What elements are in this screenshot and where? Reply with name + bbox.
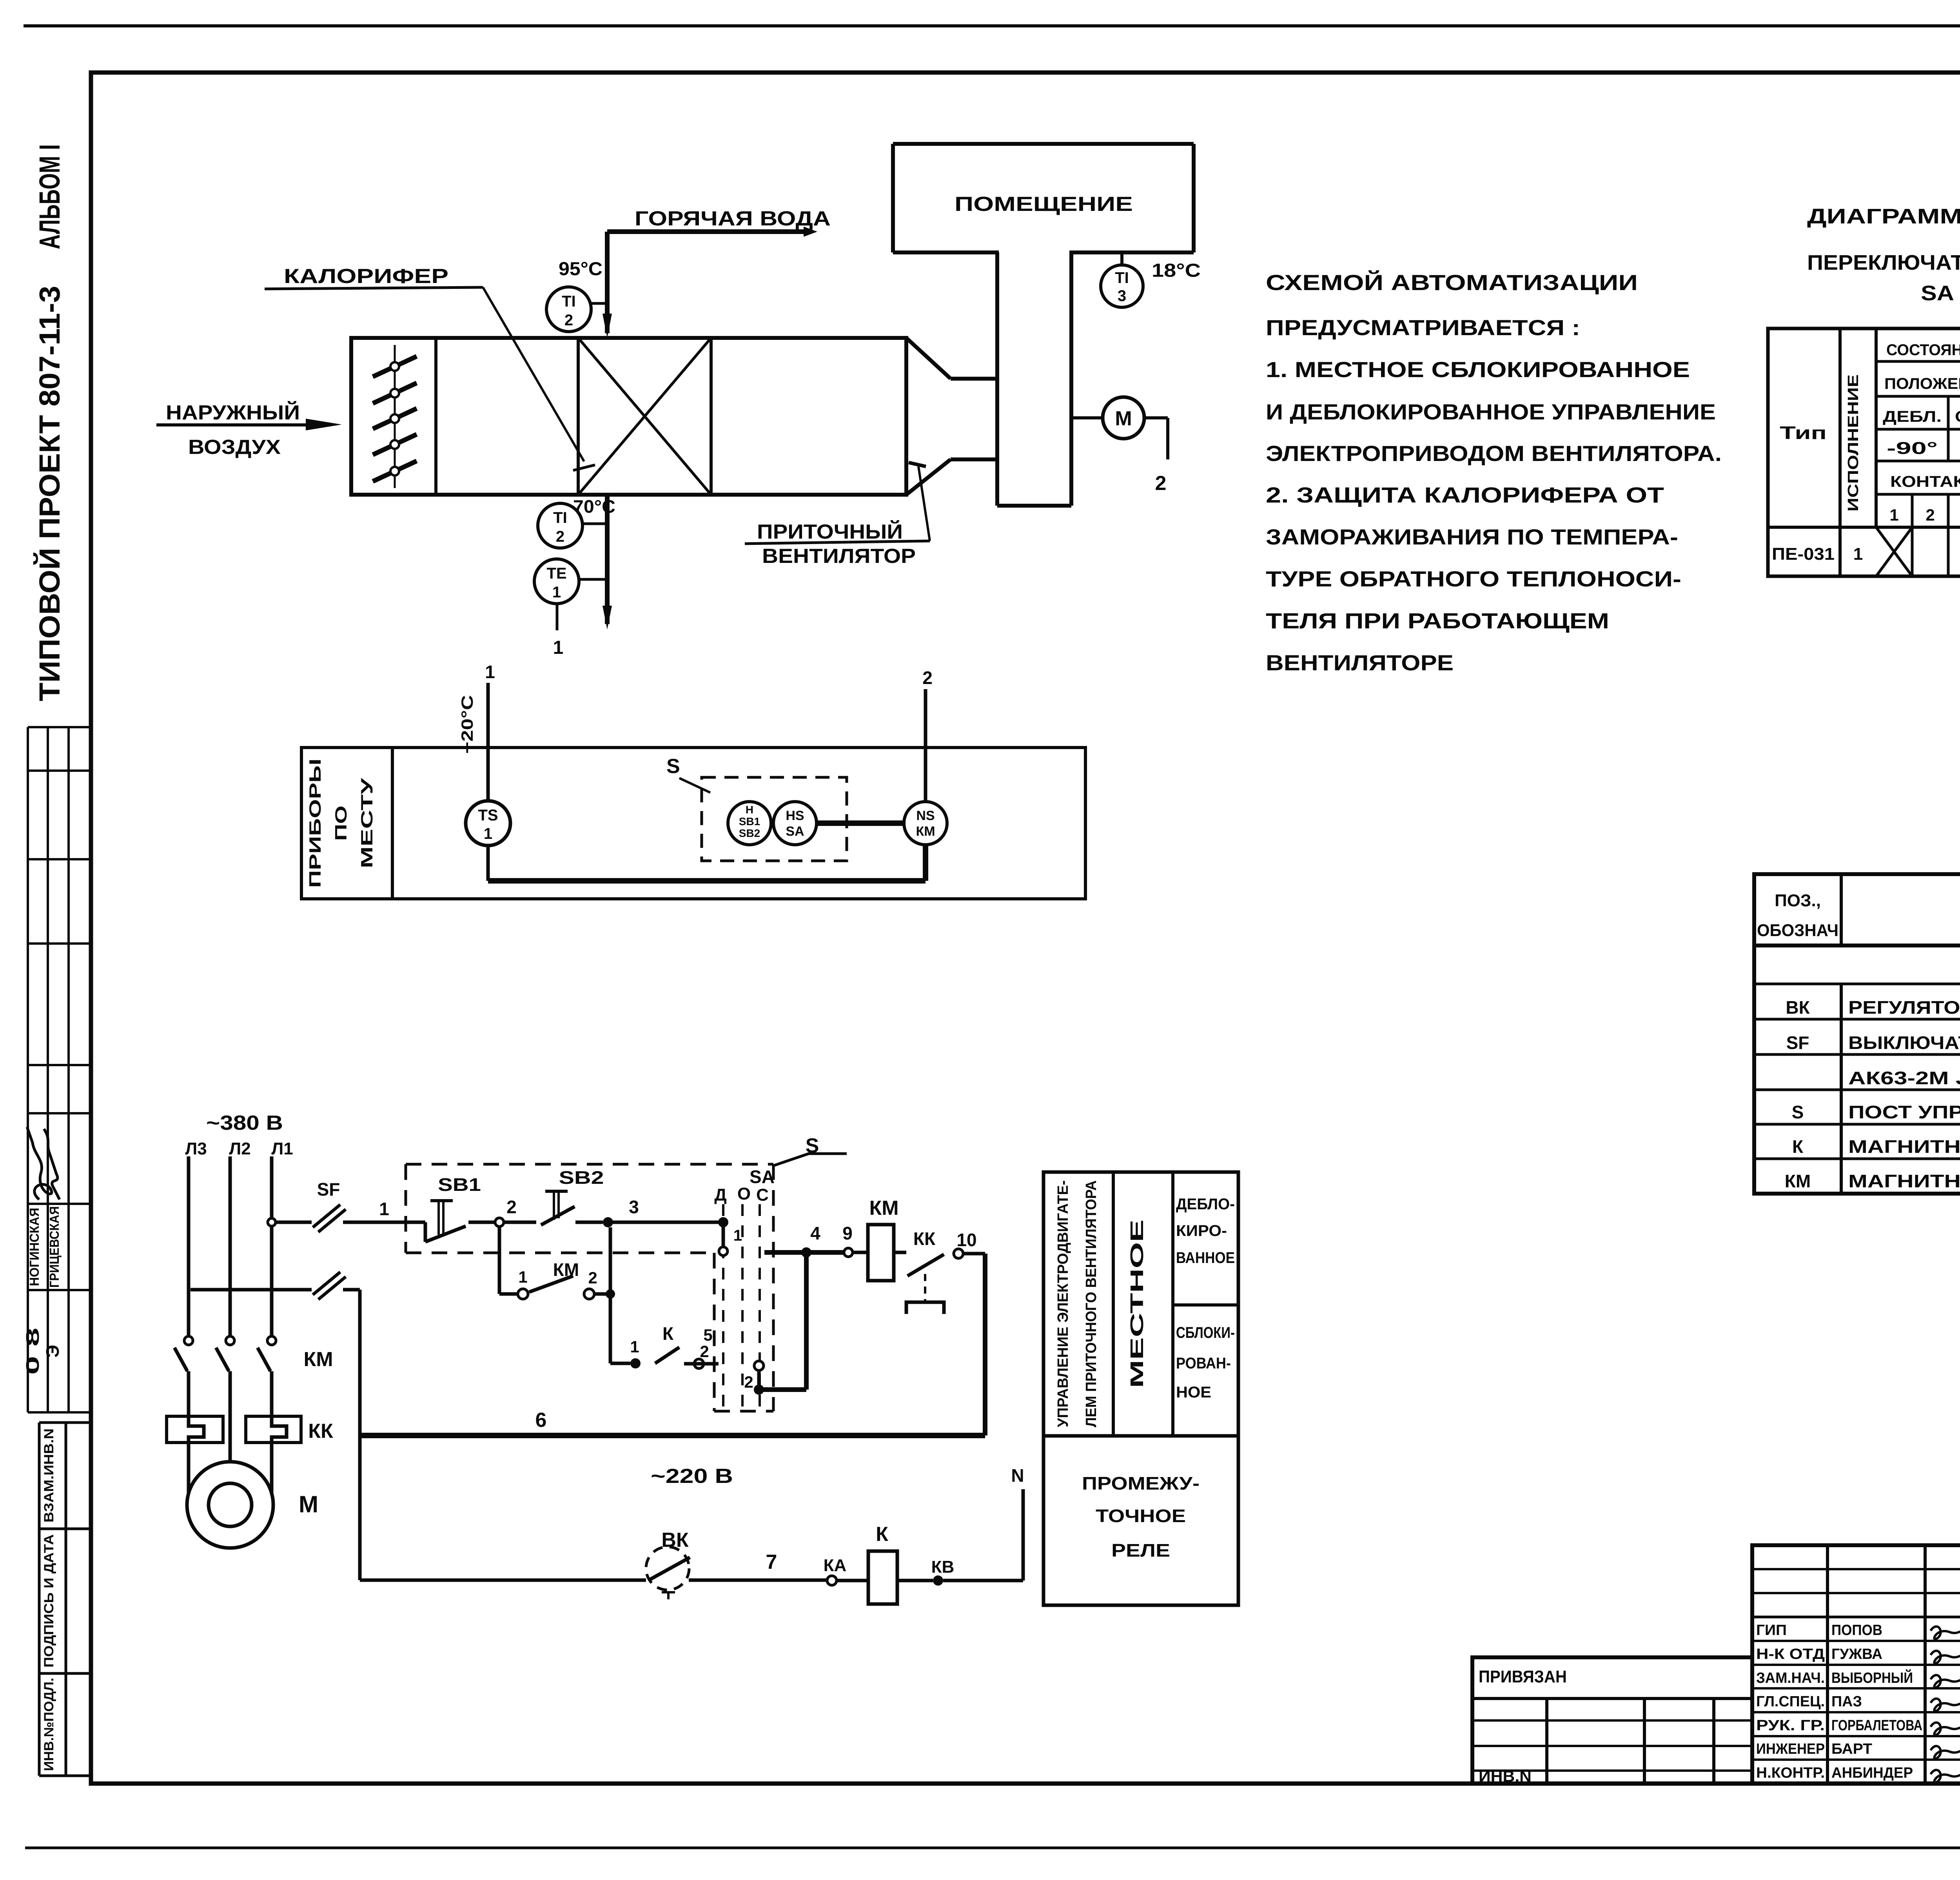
svg-text:МЕСТУ: МЕСТУ xyxy=(358,778,376,868)
svg-text:2: 2 xyxy=(506,1197,517,1217)
svg-text:3: 3 xyxy=(629,1197,639,1217)
svg-text:С: С xyxy=(756,1185,769,1205)
svg-text:К: К xyxy=(876,1523,888,1546)
svg-text:ДЕБЛ.: ДЕБЛ. xyxy=(1883,408,1942,425)
svg-text:КК: КК xyxy=(913,1229,936,1249)
svg-text:~380 В: ~380 В xyxy=(206,1112,283,1134)
svg-text:ПЕ-031: ПЕ-031 xyxy=(1772,544,1835,564)
svg-text:ГИП: ГИП xyxy=(1756,1622,1787,1639)
svg-text:ОБОЗНАЧ: ОБОЗНАЧ xyxy=(1757,921,1838,940)
svg-text:КМ: КМ xyxy=(1785,1171,1811,1191)
svg-text:0 8: 0 8 xyxy=(22,1328,43,1375)
svg-text:3: 3 xyxy=(1118,287,1126,305)
svg-text:ВЫБОРНЫЙ: ВЫБОРНЫЙ xyxy=(1831,1669,1913,1686)
svg-text:И ДЕБЛОКИРОВАННОЕ УПРАВЛЕНИЕ: И ДЕБЛОКИРОВАННОЕ УПРАВЛЕНИЕ xyxy=(1266,399,1716,424)
svg-text:АНБИНДЕР: АНБИНДЕР xyxy=(1831,1765,1913,1781)
svg-text:ПРОМЕЖУ-: ПРОМЕЖУ- xyxy=(1082,1473,1200,1493)
svg-text:Н.КОНТР.: Н.КОНТР. xyxy=(1756,1765,1825,1781)
svg-text:SA: SA xyxy=(750,1167,775,1187)
svg-text:SF: SF xyxy=(1786,1033,1809,1053)
svg-text:ПРЕДУСМАТРИВАЕТСЯ :: ПРЕДУСМАТРИВАЕТСЯ : xyxy=(1266,315,1580,340)
svg-text:О: О xyxy=(737,1184,751,1203)
svg-text:10: 10 xyxy=(956,1230,976,1250)
svg-text:1: 1 xyxy=(733,1227,742,1244)
svg-text:РОВАН-: РОВАН- xyxy=(1176,1355,1231,1372)
svg-text:К: К xyxy=(662,1323,674,1344)
svg-text:ПЕРЕКЛЮЧАТЕЛЯ: ПЕРЕКЛЮЧАТЕЛЯ xyxy=(1807,251,1960,274)
svg-text:ПРИБОРЫ: ПРИБОРЫ xyxy=(306,759,324,888)
svg-text:HS: HS xyxy=(786,808,804,823)
svg-text:АК63-2М Jнр = 0,6 А: АК63-2М Jнр = 0,6 А xyxy=(1848,1068,1960,1088)
svg-text:18°C: 18°C xyxy=(1152,260,1201,281)
svg-text:TI: TI xyxy=(562,293,576,310)
svg-text:НОЕ: НОЕ xyxy=(1176,1384,1211,1401)
svg-text:ГУЖВА: ГУЖВА xyxy=(1831,1646,1882,1662)
svg-text:M: M xyxy=(1115,407,1132,430)
svg-text:КВ: КВ xyxy=(931,1557,955,1577)
svg-text:1: 1 xyxy=(1889,506,1898,524)
svg-text:ГЛ.СПЕЦ.: ГЛ.СПЕЦ. xyxy=(1756,1693,1825,1710)
svg-text:SA: SA xyxy=(1921,281,1954,305)
svg-text:TS: TS xyxy=(478,807,498,824)
svg-text:2: 2 xyxy=(588,1268,597,1287)
svg-text:Э: Э xyxy=(42,1345,63,1358)
svg-text:5: 5 xyxy=(703,1326,712,1344)
svg-text:СОСТОЯНИЕ КОНТАКТОВ: СОСТОЯНИЕ КОНТАКТОВ xyxy=(1886,341,1960,359)
svg-text:ОТКЛ..: ОТКЛ.. xyxy=(1955,408,1960,425)
svg-text:1: 1 xyxy=(552,584,561,601)
svg-text:РУК. ГР.: РУК. ГР. xyxy=(1756,1717,1825,1734)
svg-text:S: S xyxy=(666,755,680,778)
svg-text:2: 2 xyxy=(922,668,933,688)
svg-text:ВАННОЕ: ВАННОЕ xyxy=(1176,1249,1235,1267)
svg-text:НОГИНСКАЯ: НОГИНСКАЯ xyxy=(27,1208,42,1286)
svg-text:1: 1 xyxy=(485,662,495,682)
svg-text:SB1: SB1 xyxy=(438,1174,481,1195)
svg-text:МАГНИТНЫЙ ПУСКАТЕЛЬ ПМЕ-081: МАГНИТНЫЙ ПУСКАТЕЛЬ ПМЕ-081 xyxy=(1848,1136,1960,1157)
svg-text:4: 4 xyxy=(810,1223,820,1243)
svg-text:ПОПОВ: ПОПОВ xyxy=(1831,1622,1882,1639)
svg-text:TI: TI xyxy=(553,509,567,526)
svg-text:Н-К ОТД: Н-К ОТД xyxy=(1756,1646,1825,1662)
svg-text:2. ЗАЩИТА КАЛОРИФЕРА ОТ: 2. ЗАЩИТА КАЛОРИФЕРА ОТ xyxy=(1266,483,1664,507)
svg-text:Л1: Л1 xyxy=(271,1139,293,1158)
svg-text:МАГНИТНЫЙ ПУСКАТЕЛЬ ПМЕ-122: МАГНИТНЫЙ ПУСКАТЕЛЬ ПМЕ-122 xyxy=(1848,1171,1960,1191)
svg-text:Тип: Тип xyxy=(1780,423,1827,443)
svg-text:ЛЕМ ПРИТОЧНОГО ВЕНТИЛЯТОРА: ЛЕМ ПРИТОЧНОГО ВЕНТИЛЯТОРА xyxy=(1083,1180,1100,1427)
svg-text:ВК: ВК xyxy=(661,1529,689,1552)
svg-text:ВЕНТИЛЯТОР: ВЕНТИЛЯТОР xyxy=(762,545,916,568)
svg-text:КОНТАКТНЫЕ ЦЕПИ: КОНТАКТНЫЕ ЦЕПИ xyxy=(1890,473,1960,490)
svg-text:ВОЗДУХ: ВОЗДУХ xyxy=(188,436,281,459)
svg-text:Л2: Л2 xyxy=(229,1139,250,1158)
svg-text:НАРУЖНЫЙ: НАРУЖНЫЙ xyxy=(166,401,300,424)
svg-text:9: 9 xyxy=(842,1223,853,1243)
svg-text:-90°: -90° xyxy=(1887,439,1938,458)
svg-text:95°C: 95°C xyxy=(559,259,603,279)
svg-text:ЗАМОРАЖИВАНИЯ ПО ТЕМПЕРА-: ЗАМОРАЖИВАНИЯ ПО ТЕМПЕРА- xyxy=(1266,524,1678,549)
svg-text:SB1: SB1 xyxy=(739,815,760,827)
svg-text:КА: КА xyxy=(824,1556,847,1575)
svg-text:ДЕБЛО-: ДЕБЛО- xyxy=(1176,1196,1235,1213)
svg-text:СБЛОКИ-: СБЛОКИ- xyxy=(1176,1324,1235,1341)
svg-text:ПРИТОЧНЫЙ: ПРИТОЧНЫЙ xyxy=(757,520,903,543)
svg-text:1: 1 xyxy=(518,1268,527,1286)
svg-text:1: 1 xyxy=(484,825,492,842)
svg-text:ВЗАМ.ИНВ.N: ВЗАМ.ИНВ.N xyxy=(42,1428,56,1523)
svg-text:TE: TE xyxy=(546,565,566,582)
svg-text:ВЫКЛЮЧАТЕЛЬ АВТОМАТИЧЕСКИЙ: ВЫКЛЮЧАТЕЛЬ АВТОМАТИЧЕСКИЙ xyxy=(1848,1033,1960,1053)
svg-text:SB2: SB2 xyxy=(559,1167,604,1188)
svg-text:N: N xyxy=(1011,1465,1024,1486)
svg-text:ПОМЕЩЕНИЕ: ПОМЕЩЕНИЕ xyxy=(955,193,1133,216)
svg-text:ВЕНТИЛЯТОРЕ: ВЕНТИЛЯТОРЕ xyxy=(1266,650,1454,675)
svg-text:УПРАВЛЕНИЕ ЭЛЕКТРОДВИГАТЕ-: УПРАВЛЕНИЕ ЭЛЕКТРОДВИГАТЕ- xyxy=(1055,1180,1071,1427)
svg-text:TI: TI xyxy=(1115,269,1129,287)
svg-text:ГОРБАЛЕТОВА: ГОРБАЛЕТОВА xyxy=(1831,1717,1922,1734)
svg-text:ГОРЯЧАЯ ВОДА: ГОРЯЧАЯ ВОДА xyxy=(635,207,831,230)
svg-text:ИНЖЕНЕР: ИНЖЕНЕР xyxy=(1756,1741,1825,1757)
svg-text:Л3: Л3 xyxy=(185,1139,207,1158)
svg-text:2: 2 xyxy=(744,1373,753,1391)
svg-text:SA: SA xyxy=(786,824,804,839)
svg-text:ГРИЦЕВСКАЯ: ГРИЦЕВСКАЯ xyxy=(47,1206,62,1288)
svg-text:1: 1 xyxy=(1853,544,1863,564)
svg-text:1. МЕСТНОЕ СБЛОКИРОВАННОЕ: 1. МЕСТНОЕ СБЛОКИРОВАННОЕ xyxy=(1266,357,1690,382)
svg-text:ИНВ.№ПОДЛ.: ИНВ.№ПОДЛ. xyxy=(42,1678,56,1771)
svg-text:~220 В: ~220 В xyxy=(651,1465,733,1488)
svg-text:7: 7 xyxy=(766,1551,777,1573)
svg-text:1: 1 xyxy=(379,1199,389,1219)
svg-text:СХЕМОЙ АВТОМАТИЗАЦИИ: СХЕМОЙ АВТОМАТИЗАЦИИ xyxy=(1266,270,1638,295)
svg-text:БАРТ: БАРТ xyxy=(1831,1741,1872,1757)
svg-text:ТИПОВОЙ ПРОЕКТ 807-11-3: ТИПОВОЙ ПРОЕКТ 807-11-3 xyxy=(33,286,66,701)
svg-text:КМ: КМ xyxy=(916,824,935,839)
svg-text:1: 1 xyxy=(553,637,564,658)
svg-text:ПОДПИСЬ И ДАТА: ПОДПИСЬ И ДАТА xyxy=(42,1534,56,1668)
svg-text:SB2: SB2 xyxy=(739,827,760,839)
svg-text:ТОЧНОЕ: ТОЧНОЕ xyxy=(1096,1506,1186,1526)
svg-text:РЕЛЕ: РЕЛЕ xyxy=(1111,1540,1170,1561)
svg-text:ИСПОЛНЕНИЕ: ИСПОЛНЕНИЕ xyxy=(1845,374,1862,512)
svg-text:РЕГУЛЯТОР ТЕМПЕРАТУРЫ ТУДЭ-4 0: РЕГУЛЯТОР ТЕМПЕРАТУРЫ ТУДЭ-4 0÷250°С xyxy=(1848,997,1960,1018)
svg-text:МЕСТНОЕ: МЕСТНОЕ xyxy=(1127,1219,1147,1388)
svg-text:2: 2 xyxy=(556,528,564,545)
svg-text:2: 2 xyxy=(564,312,573,329)
svg-text:ВК: ВК xyxy=(1786,997,1810,1018)
svg-text:ПАЗ: ПАЗ xyxy=(1831,1693,1862,1710)
svg-text:2: 2 xyxy=(1155,472,1167,495)
svg-text:КИРО-: КИРО- xyxy=(1176,1222,1227,1239)
svg-text:ЭЛЕКТРОПРИВОДОМ ВЕНТИЛЯТОРА.: ЭЛЕКТРОПРИВОДОМ ВЕНТИЛЯТОРА. xyxy=(1266,441,1722,466)
svg-text:ТЕЛЯ ПРИ РАБОТАЮЩЕМ: ТЕЛЯ ПРИ РАБОТАЮЩЕМ xyxy=(1266,608,1609,633)
svg-text:ДИАГРАММЫ РАБОТЫ: ДИАГРАММЫ РАБОТЫ xyxy=(1807,205,1960,228)
svg-text:К: К xyxy=(1792,1136,1804,1157)
svg-text:S: S xyxy=(1792,1102,1804,1122)
svg-text:1: 1 xyxy=(630,1337,639,1356)
svg-text:2: 2 xyxy=(1926,506,1935,524)
svg-text:КМ: КМ xyxy=(303,1348,333,1371)
svg-text:ЗАМ.НАЧ.: ЗАМ.НАЧ. xyxy=(1756,1670,1825,1686)
svg-text:ИНВ.N: ИНВ.N xyxy=(1479,1768,1532,1785)
svg-text:M: M xyxy=(299,1491,318,1517)
svg-text:ПОСТ УПРАВЛЕНИЯ ПКУ15-19-131-5: ПОСТ УПРАВЛЕНИЯ ПКУ15-19-131-54У2 xyxy=(1848,1102,1960,1122)
svg-text:H: H xyxy=(746,804,753,816)
svg-text:+20°C: +20°C xyxy=(458,695,476,754)
svg-text:КАЛОРИФЕР: КАЛОРИФЕР xyxy=(284,265,448,288)
svg-text:ТУРЕ ОБРАТНОГО ТЕПЛОНОСИ-: ТУРЕ ОБРАТНОГО ТЕПЛОНОСИ- xyxy=(1266,566,1681,591)
svg-text:ПО: ПО xyxy=(332,806,350,841)
svg-text:NS: NS xyxy=(916,808,935,823)
svg-text:КМ: КМ xyxy=(869,1197,898,1219)
svg-text:КК: КК xyxy=(308,1420,333,1443)
svg-text:2: 2 xyxy=(700,1342,709,1361)
svg-text:ПОЛОЖЕНИЕ РУКОЯТКИ: ПОЛОЖЕНИЕ РУКОЯТКИ xyxy=(1884,375,1960,392)
svg-text:SF: SF xyxy=(317,1179,340,1199)
svg-text:ПРИВЯЗАН: ПРИВЯЗАН xyxy=(1479,1667,1567,1686)
svg-text:ПОЗ.,: ПОЗ., xyxy=(1775,891,1821,910)
svg-text:АЛЬБОМ I: АЛЬБОМ I xyxy=(33,144,66,249)
svg-text:Д: Д xyxy=(714,1185,726,1205)
svg-text:6: 6 xyxy=(535,1409,547,1432)
svg-text:КМ: КМ xyxy=(553,1259,579,1280)
